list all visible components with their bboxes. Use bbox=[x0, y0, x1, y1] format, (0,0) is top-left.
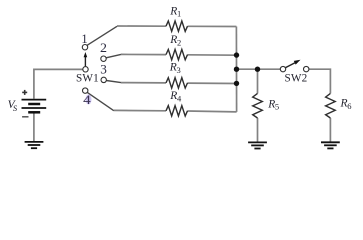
svg-text:4: 4 bbox=[83, 93, 92, 107]
svg-text:3: 3 bbox=[177, 65, 181, 75]
svg-text:6: 6 bbox=[347, 101, 351, 111]
svg-text:1: 1 bbox=[81, 32, 87, 46]
svg-text:2: 2 bbox=[100, 41, 107, 55]
svg-text:3: 3 bbox=[100, 63, 107, 77]
svg-text:1: 1 bbox=[177, 9, 181, 19]
svg-text:2: 2 bbox=[177, 38, 181, 48]
svg-text:SW2: SW2 bbox=[285, 73, 308, 85]
svg-text:S: S bbox=[13, 103, 18, 113]
svg-text:5: 5 bbox=[275, 102, 279, 112]
svg-text:SW1: SW1 bbox=[76, 73, 99, 85]
